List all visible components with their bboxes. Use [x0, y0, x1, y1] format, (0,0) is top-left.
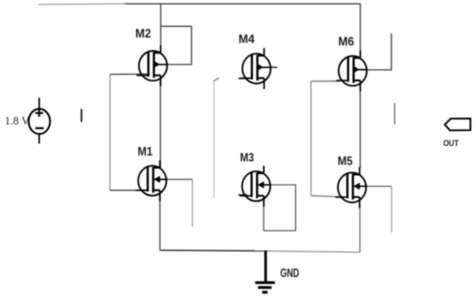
svg-text:OUT: OUT	[443, 138, 459, 148]
svg-text:M6: M6	[338, 35, 354, 49]
svg-text:M1: M1	[138, 145, 153, 159]
svg-text:GND: GND	[280, 268, 299, 280]
svg-text:M3: M3	[240, 150, 254, 164]
svg-text:M5: M5	[338, 154, 353, 168]
svg-text:M4: M4	[239, 32, 255, 46]
svg-text:M2: M2	[135, 27, 151, 41]
svg-text:1.8 V: 1.8 V	[5, 116, 31, 128]
